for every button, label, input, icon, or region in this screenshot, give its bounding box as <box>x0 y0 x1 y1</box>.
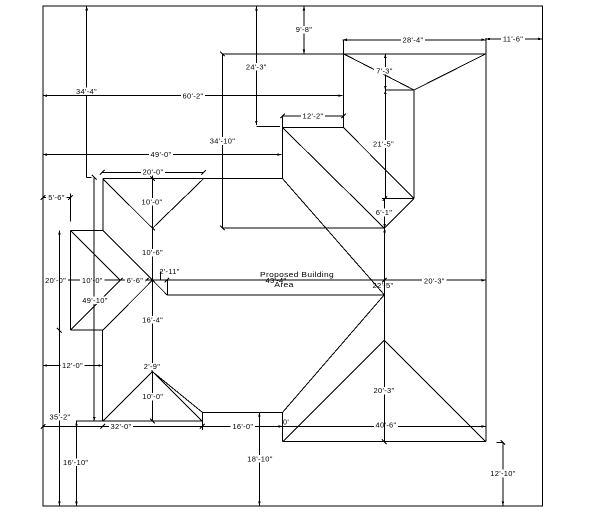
svg-text:28'-4": 28'-4" <box>403 36 424 45</box>
wire hip bottom-left left <box>103 372 153 422</box>
svg-text:40'-6": 40'-6" <box>376 421 397 430</box>
wire hip <box>103 230 153 280</box>
svg-text:5'-6": 5'-6" <box>48 193 64 202</box>
dim leader 2'-11" <box>160 272 162 281</box>
wire hip <box>384 199 414 229</box>
svg-text:21'-5": 21'-5" <box>373 140 394 149</box>
dim line 20'-0" 35'-2" vertical <box>58 230 60 506</box>
dim line 34'-4" vertical <box>86 6 88 177</box>
svg-text:35'-2": 35'-2" <box>50 413 71 422</box>
wire vertical x282 lower <box>282 412 284 441</box>
wire vertical x343 <box>343 40 345 128</box>
svg-text:16'-10": 16'-10" <box>63 458 88 467</box>
svg-text:32'-0": 32'-0" <box>111 422 132 431</box>
dim line 12'-2" <box>283 115 344 117</box>
dim line 34'-10" vertical <box>222 54 224 228</box>
wire bottom edge lower-left <box>76 420 203 422</box>
dim chain 32' 16' 40'-6" <box>43 425 486 427</box>
svg-text:2'-9": 2'-9" <box>144 362 160 371</box>
svg-text:34'-10": 34'-10" <box>210 137 235 146</box>
dim ext 5'-6" <box>69 194 71 222</box>
svg-text:11'-6": 11'-6" <box>503 35 523 44</box>
wire hip top-left right <box>153 179 204 229</box>
dim line 60'-2" <box>43 95 343 97</box>
svg-text:12'-0": 12'-0" <box>62 361 83 370</box>
svg-text:20'-0": 20'-0" <box>143 167 164 176</box>
dim stub <box>256 125 280 127</box>
svg-text:9'-8": 9'-8" <box>296 25 312 34</box>
svg-text:16'-0": 16'-0" <box>232 422 253 431</box>
wire hip top-right right <box>414 54 486 90</box>
wire redraw crossing segments <box>58 277 60 285</box>
dimension ticks <box>41 52 506 445</box>
dim line 9'-8" vertical <box>303 6 305 54</box>
svg-text:24'-3": 24'-3" <box>246 62 267 71</box>
svg-text:18'-10": 18'-10" <box>247 455 272 464</box>
dim line 28'-4" <box>343 39 486 41</box>
wire long valley mid <box>283 179 385 295</box>
dim line 49'-0" <box>43 154 282 156</box>
dim stub <box>87 177 92 179</box>
wire edge y412 <box>202 411 282 413</box>
wire valley long <box>283 128 385 229</box>
wire hip bottom-left right <box>152 372 202 422</box>
svg-text:10'-0": 10'-0" <box>142 392 163 401</box>
wire band bottom edge <box>167 294 384 296</box>
dim stub y90 <box>385 89 414 91</box>
border frame <box>43 6 542 506</box>
svg-text:20'-3": 20'-3" <box>424 276 445 285</box>
dim line 11'-6" <box>486 38 543 40</box>
svg-text:10'-6": 10'-6" <box>142 248 163 257</box>
dim chain line middle <box>43 279 486 281</box>
wire hip top-left left <box>103 179 153 229</box>
wire valley bottom-left <box>152 372 202 413</box>
dim stub y198 <box>382 198 414 200</box>
wire hip bottom-right left <box>283 340 385 441</box>
wire vertical x282 upper <box>282 116 284 179</box>
wire edge y228 <box>223 227 385 229</box>
svg-text:60'-2": 60'-2" <box>183 91 204 100</box>
svg-text:34'-4": 34'-4" <box>76 87 97 96</box>
wire ridge right section <box>383 199 385 442</box>
svg-text:49'-0": 49'-0" <box>151 150 172 159</box>
svg-text:10'-0": 10'-0" <box>142 197 163 206</box>
wire wing bottom edge <box>70 329 102 331</box>
svg-text:2'-11": 2'-11" <box>159 267 179 276</box>
dim line 24'-3" vertical <box>255 6 257 125</box>
svg-text:20'-0": 20'-0" <box>45 276 66 285</box>
svg-text:49'-10": 49'-10" <box>82 296 107 305</box>
wire vertical x202 <box>201 412 203 430</box>
wire diag band <box>153 280 168 295</box>
svg-text:7'-3": 7'-3" <box>376 66 392 75</box>
wire hip bottom-right right <box>384 340 486 441</box>
dim line 12'-10" vertical <box>502 442 504 506</box>
dim line 18'-10" vertical <box>258 413 260 506</box>
dim stub 12'-10" <box>497 441 503 443</box>
dimension text labels <box>294 26 315 34</box>
dim line 7'-3" 21'-5" vertical <box>384 54 386 199</box>
svg-text:6'-1": 6'-1" <box>376 208 392 217</box>
svg-text:0': 0' <box>283 417 289 426</box>
wire lower-left left edge <box>102 330 104 421</box>
wire wing hip upper <box>70 230 120 280</box>
dim line 20'-0" horizontal <box>102 171 203 173</box>
wire ridge top-right <box>413 90 415 199</box>
wire wing left edge <box>69 230 71 330</box>
dim line 12'-0" <box>43 365 103 367</box>
svg-text:10'-0": 10'-0" <box>82 276 103 285</box>
svg-text:6'-6": 6'-6" <box>127 276 143 285</box>
svg-text:20'-3": 20'-3" <box>374 386 395 395</box>
svg-text:22'-5": 22'-5" <box>373 281 394 290</box>
wire center ridge vertical <box>152 172 154 421</box>
wire bottom edge right section <box>283 441 486 443</box>
dim line 49'-10" vertical <box>93 177 95 421</box>
svg-text:12'-10": 12'-10" <box>490 469 515 478</box>
dim line 5'-6" <box>43 197 70 199</box>
wire top edge upper sections <box>223 53 486 55</box>
svg-text:12'-2": 12'-2" <box>303 112 324 121</box>
wire long valley lower <box>283 295 385 413</box>
wire right edge of building <box>485 38 487 442</box>
wire wing top edge <box>70 229 103 231</box>
wire left edge notch <box>102 179 104 231</box>
svg-text:16'-4": 16'-4" <box>142 316 163 325</box>
dim line 16'-10" vertical <box>76 421 78 506</box>
wire hip top-right left <box>344 54 415 90</box>
wire wing hip lower <box>70 280 120 330</box>
wire band left vertical <box>166 280 168 295</box>
wire valley lower-left <box>103 280 153 330</box>
wire valley <box>344 128 415 199</box>
svg-text:Area: Area <box>274 280 294 289</box>
wire edge y127 <box>283 127 344 129</box>
dimension arrowheads <box>43 6 542 506</box>
wire top edge left section <box>103 178 283 180</box>
